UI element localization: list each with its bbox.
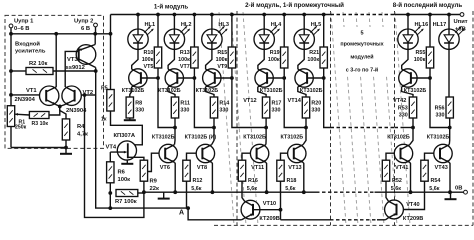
LED HL16 bbox=[398, 29, 418, 49]
wire: VT2 base lead to output column bbox=[81, 94, 95, 96]
svg-text:VT14: VT14 bbox=[288, 98, 302, 104]
node A bbox=[186, 206, 190, 210]
transistor VT41 (КТ3102Б) bbox=[394, 144, 412, 162]
svg-text:R6: R6 bbox=[118, 170, 126, 176]
wire: R19 bottom to base node bbox=[283, 68, 285, 78]
svg-text:КТ209В: КТ209В bbox=[259, 216, 279, 222]
svg-text:100к: 100к bbox=[142, 57, 154, 63]
svg-text:R16: R16 bbox=[248, 178, 258, 184]
wire: node to VT11 collector bbox=[265, 128, 267, 145]
wire: VT14 base lead bbox=[307, 77, 324, 79]
wire: R12 bottom to A row bbox=[187, 181, 189, 208]
svg-text:R20: R20 bbox=[311, 101, 321, 107]
svg-text:5,6к: 5,6к bbox=[191, 186, 201, 192]
svg-text:330: 330 bbox=[219, 108, 228, 114]
wire: Uupr1 down to bus bbox=[10, 28, 12, 34]
svg-text:HL3: HL3 bbox=[218, 22, 229, 28]
wire: VT6 base to R9 tap bbox=[148, 153, 159, 171]
svg-text:VT1: VT1 bbox=[26, 88, 37, 94]
svg-text:КТ3102Б: КТ3102Б bbox=[196, 88, 219, 94]
svg-text:Uупр 2: Uупр 2 bbox=[74, 18, 93, 24]
wire: VT7 emitter to 330 resistor bbox=[168, 87, 175, 97]
resistor R16 5,6к bbox=[238, 160, 245, 181]
resistor R5 1k bbox=[110, 34, 112, 90]
svg-text:R13: R13 bbox=[180, 50, 190, 56]
ground symbol: R8 bbox=[129, 118, 131, 120]
potentiometer R1 250k bbox=[7, 106, 14, 127]
wire: R56 bottom to node bbox=[449, 118, 451, 128]
wire: LED cathode jog to VT42 collector bbox=[402, 49, 408, 69]
svg-text:промежуточных: промежуточных bbox=[340, 42, 383, 48]
svg-text:330: 330 bbox=[135, 108, 144, 114]
svg-text:0В: 0В bbox=[455, 186, 462, 192]
svg-text:VT5: VT5 bbox=[144, 64, 154, 70]
wire: R1 bottom to ground wire bbox=[10, 127, 12, 148]
resistor R52 5,6к bbox=[382, 160, 389, 181]
svg-text:100к: 100к bbox=[118, 177, 131, 183]
wire: VT42 emitter to 330 resistor bbox=[402, 87, 413, 97]
resistor R7 100k bbox=[116, 190, 138, 197]
wire: LED cathode jog to VT12 collector bbox=[258, 49, 264, 69]
wire: VT12 base lead bbox=[267, 77, 284, 79]
wire: R16 bottom to VT10 collector bbox=[242, 181, 245, 201]
resistor R11 330 bbox=[171, 97, 178, 118]
transistor VT9 (КТ3102Б) bbox=[203, 69, 221, 87]
svg-text:КТ3102Б (И): КТ3102Б (И) bbox=[185, 135, 217, 141]
wire: R21 bottom to base node bbox=[323, 68, 325, 78]
wire: VT3 base to VT2 collector bbox=[65, 51, 79, 87]
svg-text:VT11: VT11 bbox=[251, 165, 264, 171]
svg-text:VT40: VT40 bbox=[406, 202, 419, 208]
svg-text:0–6 В: 0–6 В bbox=[14, 26, 29, 32]
terminal: Upit +6V bbox=[460, 13, 464, 17]
svg-text:Входной: Входной bbox=[15, 41, 40, 48]
svg-text:VT4: VT4 bbox=[106, 144, 117, 150]
wire: Uupr2 down to bus bbox=[95, 27, 97, 34]
svg-text:HL2: HL2 bbox=[181, 22, 192, 28]
svg-text:R15: R15 bbox=[217, 50, 227, 56]
resistor R4 4.7k bbox=[62, 119, 69, 140]
svg-text:22к: 22к bbox=[150, 186, 159, 192]
svg-text:VT41: VT41 bbox=[395, 165, 408, 171]
resistor R9 22k bbox=[140, 160, 147, 181]
wire: node to VT43 collector bbox=[448, 128, 450, 145]
wire: R21 column down toward omitted modules (dashed) bbox=[324, 78, 331, 128]
svg-text:HL1: HL1 bbox=[145, 22, 156, 28]
svg-text:100к: 100к bbox=[268, 57, 280, 63]
wire: bus corner up to rail bbox=[110, 15, 112, 34]
wire: VT5 emitter to 330 resistor bbox=[130, 87, 132, 97]
svg-text:2N3904: 2N3904 bbox=[15, 97, 36, 103]
transistor VT3 ss9012 bbox=[94, 34, 96, 45]
resistor R20 330 bbox=[302, 97, 309, 118]
svg-text:R18: R18 bbox=[287, 178, 297, 184]
ground symbol: input amp bbox=[65, 148, 67, 154]
wire: emitter junction bbox=[55, 104, 65, 106]
LED HL3 bbox=[202, 29, 222, 49]
ground symbol: VT4 bbox=[126, 160, 128, 164]
transistor VT7 (КТ3102Б) bbox=[165, 69, 183, 87]
wire: R13 bottom to base node bbox=[193, 68, 195, 78]
wire: VT12 emitter to 330 resistor bbox=[258, 87, 266, 97]
resistor R2 10k bbox=[26, 68, 53, 75]
wire: rail to LED HL4 bbox=[263, 15, 265, 30]
resistor R21 100k bbox=[323, 15, 325, 48]
LED HL1 bbox=[128, 29, 148, 49]
svg-text:1к: 1к bbox=[101, 117, 107, 123]
svg-text:Uпит: Uпит bbox=[454, 19, 468, 25]
wire: VT2 base branch down to R9 bottom bbox=[85, 95, 144, 217]
wire: R14 bottom to node bbox=[213, 118, 215, 128]
resistor R10 100k bbox=[157, 15, 159, 48]
wire: rail to LED HL2 bbox=[173, 15, 175, 30]
svg-text:R7 100к: R7 100к bbox=[115, 199, 137, 205]
wire: VT11 emitter to ground rail bbox=[265, 162, 268, 192]
wire: R13 column down to VT8 collector node bbox=[194, 78, 214, 128]
wire: VT4 source to R9 top bbox=[128, 157, 144, 160]
svg-text:R10: R10 bbox=[144, 50, 154, 56]
resistor R56 330 bbox=[446, 97, 453, 118]
svg-text:R53: R53 bbox=[398, 106, 408, 112]
dashed separator: module8 left bbox=[394, 11, 396, 225]
wire: R55 column down to VT43 collector node bbox=[430, 78, 450, 128]
svg-text:R52: R52 bbox=[392, 178, 402, 184]
wire: R7 right lead bbox=[138, 192, 144, 194]
resistor R54 5,6к bbox=[421, 160, 428, 181]
wire: VT8 emitter to ground rail bbox=[211, 162, 214, 192]
resistor R17 330 bbox=[262, 97, 269, 118]
diagonal break lines for omitted modules bbox=[219, 12, 234, 225]
svg-text:R19: R19 bbox=[270, 50, 280, 56]
wire: LED cathode jog to VT14 collector bbox=[298, 49, 304, 69]
svg-text:330: 330 bbox=[272, 108, 281, 114]
transistor VT12 (КТ3102Б) bbox=[255, 69, 273, 87]
transistor VT14 (КТ3102Б) bbox=[295, 69, 313, 87]
wire: R54 bottom to VT40 base bbox=[397, 181, 425, 209]
transistor VT8 (КТ3102Б (И)) bbox=[196, 144, 214, 162]
wire: VT9 emitter to 330 resistor bbox=[206, 87, 215, 97]
svg-text:КТ3102Б: КТ3102Б bbox=[427, 135, 450, 141]
wire: R6 bottom to A row bbox=[109, 183, 111, 208]
wire: +6V top rail bbox=[111, 14, 331, 16]
wire: VT41 base to R52 bbox=[386, 153, 394, 160]
wire: R18 bottom through VT10 base to chain row bbox=[280, 181, 282, 220]
resistor R14 330 bbox=[210, 97, 217, 118]
wire: VT4 gate column to R6 bbox=[109, 152, 111, 162]
wire: R15 column down to VT11 collector node bbox=[232, 78, 266, 128]
wire: node to VT41 collector bbox=[410, 128, 413, 145]
wire: R2 right lead to feedback node bbox=[53, 70, 96, 72]
svg-text:2-й модуль, 1-й промежуточный: 2-й модуль, 1-й промежуточный bbox=[245, 2, 344, 9]
wire: VT13 base to R18 bbox=[281, 153, 288, 160]
svg-text:R54: R54 bbox=[431, 178, 441, 184]
svg-text:4,7к: 4,7к bbox=[77, 132, 88, 138]
svg-text:HL5: HL5 bbox=[311, 22, 322, 28]
svg-text:КТ3102Б: КТ3102Б bbox=[122, 88, 145, 94]
wire: LED cathode jog to VT9 collector bbox=[206, 49, 212, 69]
wire: dashed feed from omitted modules to R53 node bbox=[395, 127, 405, 129]
svg-text:6 В: 6 В bbox=[81, 26, 90, 32]
svg-text:100к: 100к bbox=[414, 57, 426, 63]
svg-text:330: 330 bbox=[311, 108, 320, 114]
wire: R2 left lead bbox=[11, 70, 26, 72]
svg-text:5,6к: 5,6к bbox=[285, 186, 295, 192]
resistor R12 5,6к bbox=[183, 160, 190, 181]
svg-text:5: 5 bbox=[360, 31, 363, 37]
resistor R18 5,6к bbox=[277, 160, 284, 181]
wire: VT41 emitter to ground rail bbox=[409, 162, 412, 192]
wire: rail to LED HL16 bbox=[407, 15, 409, 30]
resistor R15 100k bbox=[231, 15, 233, 48]
svg-text:R5: R5 bbox=[101, 86, 108, 92]
svg-text:А: А bbox=[179, 210, 184, 217]
wire: ground rail bbox=[144, 191, 316, 193]
dashed bottom border of modules bbox=[214, 224, 473, 226]
ground symbol: mid rail bbox=[163, 192, 165, 198]
wire: VT40 emitter to chain bbox=[385, 218, 388, 220]
svg-text:R56: R56 bbox=[435, 106, 445, 112]
svg-text:КТ3102Б: КТ3102Б bbox=[158, 88, 181, 94]
wire: R5 bottom to VT4 drain bbox=[111, 111, 143, 145]
svg-text:VT12: VT12 bbox=[243, 98, 256, 104]
transistor VT13 (КТ3102Б) bbox=[288, 144, 306, 162]
svg-text:КТ3102Б: КТ3102Б bbox=[152, 135, 175, 141]
svg-text:КП307А: КП307А bbox=[114, 133, 136, 139]
wire: chain row to module 8 bbox=[281, 219, 331, 221]
svg-text:100к: 100к bbox=[178, 57, 190, 63]
svg-text:100к: 100к bbox=[216, 57, 228, 63]
wire: emitters down to R4 bbox=[60, 106, 66, 119]
wire: R53 bottom to node bbox=[412, 118, 414, 128]
wire: R20 bottom to node bbox=[305, 118, 307, 128]
wire: rail to LED HL1 bbox=[137, 15, 139, 30]
wire: control bus bbox=[11, 33, 111, 35]
transistor VT5 (КТ3102Б) bbox=[129, 69, 147, 87]
svg-text:КТ3102Б: КТ3102Б bbox=[243, 135, 266, 141]
svg-text:250к: 250к bbox=[15, 125, 27, 131]
transistor VT40 KT209V bbox=[385, 200, 404, 219]
svg-text:VT7: VT7 bbox=[180, 64, 190, 70]
wire: rail to LED HL5 bbox=[303, 15, 305, 30]
wire: node to VT8 collector bbox=[212, 128, 214, 145]
ground symbol: right rail bbox=[450, 192, 452, 199]
label: 5 intermediate modules note bbox=[337, 27, 387, 74]
svg-text:усилитель: усилитель bbox=[15, 49, 46, 55]
wire: R15 bottom to base node bbox=[231, 68, 233, 78]
svg-text:R12: R12 bbox=[193, 178, 203, 184]
svg-text:R21: R21 bbox=[309, 50, 319, 56]
svg-text:R11: R11 bbox=[180, 101, 190, 107]
wire: VT14 emitter to 330 resistor bbox=[298, 87, 306, 97]
svg-text:330: 330 bbox=[436, 113, 445, 119]
wire: node to VT6 collector bbox=[174, 128, 177, 145]
wire: R10 column down to VT6 collector node bbox=[158, 78, 175, 128]
wire: VT10 emitter to chain bbox=[242, 218, 245, 220]
transistor VT10 KT209V bbox=[241, 200, 260, 219]
svg-text:HL17: HL17 bbox=[433, 22, 447, 28]
wire: amp output column down to A row bbox=[96, 95, 188, 208]
transistor VT1 2N3904 bbox=[40, 86, 59, 105]
wire: R10 bottom to base node bbox=[157, 68, 159, 78]
wire: input amp ground wire bbox=[11, 147, 66, 149]
svg-text:VT6: VT6 bbox=[160, 165, 170, 171]
wire: VT6 emitter to ground rail bbox=[174, 162, 177, 192]
resistor R8 330 bbox=[126, 97, 133, 118]
svg-text:5,6к: 5,6к bbox=[429, 186, 439, 192]
wire: VT43 base to R54 bbox=[425, 153, 434, 160]
transistor VT43 (КТ3102Б) bbox=[434, 144, 452, 162]
dashed separator: module2 right bbox=[330, 11, 332, 225]
wire: VT7 base lead bbox=[177, 77, 194, 79]
svg-text:VT8: VT8 bbox=[197, 165, 207, 171]
wire: left column (Uupr1/R2/VT1 base/R1) bbox=[10, 34, 12, 106]
svg-text:VT9: VT9 bbox=[217, 64, 227, 70]
transistor VT4 KP307A (JFET) bbox=[117, 141, 136, 160]
transistor VT2 2N3904 bbox=[62, 86, 81, 105]
wire: rail to LED HL3 bbox=[211, 15, 213, 30]
transistor VT11 (КТ3102Б) bbox=[250, 144, 268, 162]
LED HL4 bbox=[254, 29, 274, 49]
svg-text:VT10: VT10 bbox=[263, 201, 276, 207]
wire: LED cathode jog to VT5 collector bbox=[132, 49, 138, 69]
dashed box: input amplifier bbox=[5, 15, 104, 148]
wire: R3 right to emitter junction bbox=[49, 106, 60, 115]
wire: VT1 collector column to bus bbox=[55, 34, 57, 87]
resistor R6 100k bbox=[107, 162, 114, 183]
resistor R13 100k bbox=[193, 15, 195, 48]
svg-text:HL4: HL4 bbox=[271, 22, 282, 28]
wire: R9 bottom to ground rail bbox=[143, 181, 145, 192]
wire: VT10 base lead bbox=[253, 209, 281, 211]
wire: LED cathode jog to VT7 collector bbox=[168, 49, 174, 69]
terminal: 0V bbox=[464, 190, 468, 194]
wire: R19 column down to VT13 collector node bbox=[284, 78, 306, 128]
wire: R52 bottom to VT40 collector bbox=[386, 181, 388, 201]
wire: VT1 base lead bbox=[11, 94, 40, 96]
svg-text:R3 10к: R3 10к bbox=[32, 121, 49, 127]
wire: R4 bottom to ground wire bbox=[65, 140, 67, 148]
transistor VT6 (КТ3102Б) bbox=[159, 144, 177, 162]
resistor R3 10k with wiper arrow to R1 bbox=[29, 112, 49, 119]
svg-text:VT13: VT13 bbox=[288, 165, 301, 171]
svg-text:5,6к: 5,6к bbox=[247, 186, 257, 192]
wire: rail to LED HL17 bbox=[448, 15, 450, 30]
svg-text:VT3: VT3 bbox=[67, 57, 78, 63]
wire: R11 bottom to node bbox=[174, 118, 176, 128]
resistor R19 100k bbox=[283, 15, 285, 48]
wire: node to VT13 collector bbox=[303, 128, 306, 145]
transistor VT42 (КТ3102Б) bbox=[399, 69, 417, 87]
svg-text:R17: R17 bbox=[272, 101, 282, 107]
wire: R55 bottom to base node bbox=[429, 68, 431, 78]
svg-text:R8: R8 bbox=[135, 101, 142, 107]
svg-text:КТ3102Б: КТ3102Б bbox=[387, 135, 410, 141]
wire: VT8 base to R12 bbox=[187, 153, 197, 160]
dashed separator: module8 right bbox=[472, 11, 474, 225]
wire: VT42 base lead bbox=[411, 77, 430, 79]
wire: VT3 collector to output column bbox=[95, 68, 97, 96]
svg-text:R9: R9 bbox=[150, 179, 158, 185]
svg-text:R55: R55 bbox=[416, 50, 426, 56]
svg-text:R14: R14 bbox=[219, 101, 229, 107]
resistor R55 100k bbox=[429, 15, 431, 48]
resistor R53 330 bbox=[409, 97, 416, 118]
svg-text:100к: 100к bbox=[307, 57, 319, 63]
svg-text:HL16: HL16 bbox=[415, 22, 429, 28]
svg-text:330: 330 bbox=[399, 113, 408, 119]
LED HL2 bbox=[164, 29, 184, 49]
svg-text:с 3-го по 7-й: с 3-го по 7-й bbox=[346, 67, 378, 74]
svg-text:ss9012: ss9012 bbox=[66, 65, 85, 71]
LED HL5 bbox=[294, 29, 314, 49]
wire: VT9 base lead bbox=[215, 77, 232, 79]
svg-text:КТ209В: КТ209В bbox=[403, 216, 423, 222]
svg-text:8-й последний модуль: 8-й последний модуль bbox=[393, 2, 463, 9]
wire: VT43 emitter to ground rail bbox=[448, 162, 451, 192]
svg-text:R2 10к: R2 10к bbox=[29, 61, 47, 67]
wire: R17 bottom to node bbox=[265, 118, 267, 128]
svg-text:Uупр 1: Uупр 1 bbox=[14, 18, 34, 24]
svg-text:330: 330 bbox=[180, 108, 189, 114]
svg-text:5,6к: 5,6к bbox=[391, 186, 401, 192]
wire: VT11 base to R16 bbox=[242, 153, 250, 160]
wire: VT5 base lead bbox=[141, 77, 158, 79]
svg-text:модулей: модулей bbox=[350, 54, 373, 61]
svg-text:1-й модуль: 1-й модуль bbox=[154, 4, 189, 11]
svg-text:VT43: VT43 bbox=[435, 165, 448, 171]
dashed separator: module1/module2 bbox=[236, 11, 238, 225]
svg-text:КТ3102Б: КТ3102Б bbox=[281, 135, 304, 141]
svg-text:VT42: VT42 bbox=[393, 98, 406, 104]
LED HL17 bbox=[439, 29, 459, 49]
wire: VT13 emitter to ground rail bbox=[302, 162, 305, 192]
wire: HL17 cathode to R56 bbox=[448, 49, 451, 97]
